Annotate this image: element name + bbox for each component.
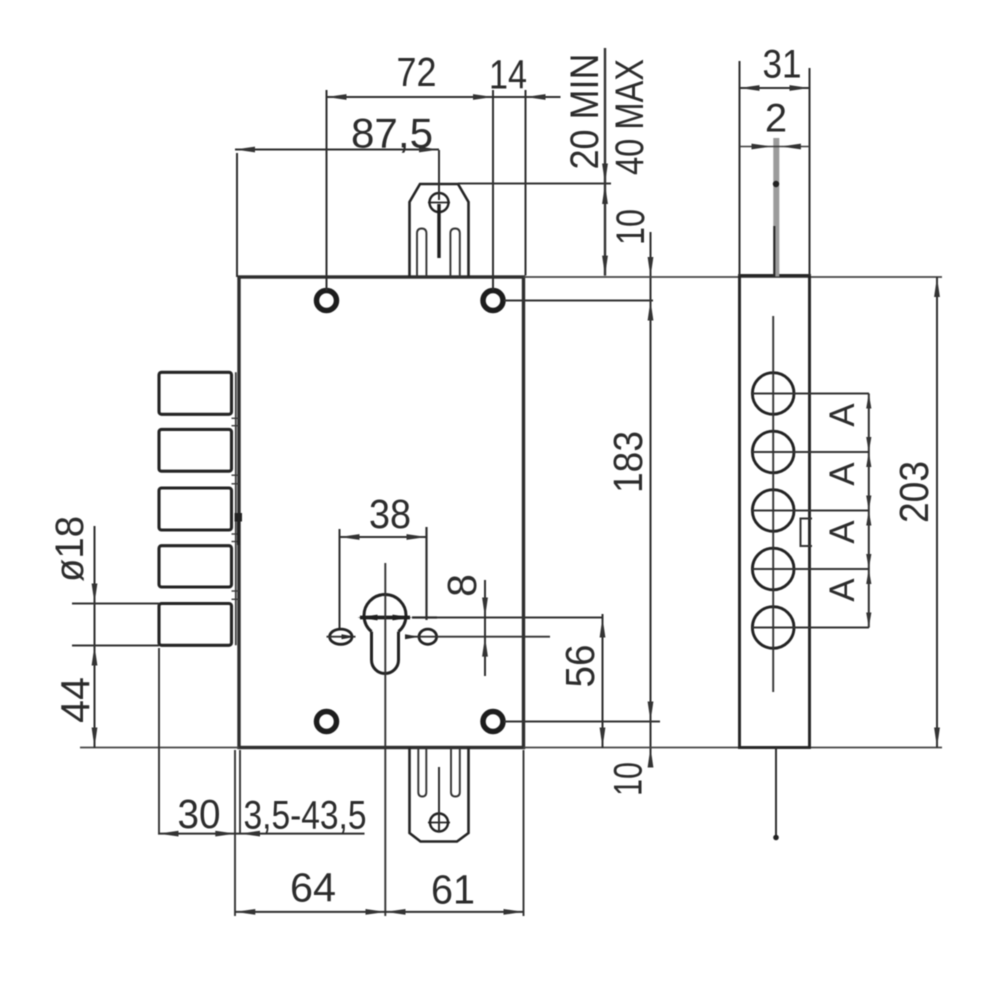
- dimension 30 / 3,5-43,5: [158, 833, 365, 835]
- dimension 87,5 line: [235, 150, 439, 278]
- mounting hole top-left: [317, 291, 337, 311]
- bottom tab slot left: [418, 748, 426, 797]
- side row lines: [752, 394, 869, 628]
- bolt5 extension lines: [72, 603, 159, 605]
- hole row extension bottom: [504, 721, 660, 723]
- bottom tab screw: [430, 814, 448, 832]
- deadbolt 2: [159, 429, 232, 471]
- top fixing tab: [410, 184, 469, 277]
- svg-text:183: 183: [605, 431, 651, 493]
- side screw dot: [773, 181, 779, 187]
- svg-text:8: 8: [439, 574, 485, 597]
- svg-text:14: 14: [489, 52, 527, 98]
- svg-text:ø18: ø18: [48, 516, 92, 582]
- mounting hole bottom-right: [483, 712, 503, 732]
- svg-text:30: 30: [178, 791, 221, 837]
- dimension 56: [602, 614, 604, 748]
- body bottom extension: [80, 747, 239, 749]
- bottom tab slot right: [451, 748, 460, 797]
- top tab slot left: [417, 229, 426, 278]
- svg-text:40 MAX: 40 MAX: [608, 59, 652, 175]
- top tab screw: [430, 193, 449, 212]
- svg-text:64: 64: [290, 865, 336, 911]
- svg-text:2: 2: [765, 97, 787, 141]
- svg-text:10: 10: [607, 762, 651, 796]
- side tail: [775, 748, 777, 837]
- svg-text:31: 31: [763, 43, 802, 87]
- dimension A line: [868, 394, 870, 628]
- svg-text:A: A: [823, 578, 862, 602]
- svg-text:87,5: 87,5: [351, 110, 433, 157]
- dimension 203: [936, 277, 938, 748]
- dimension ø18 / 44: [94, 526, 96, 748]
- mounting hole top-right: [483, 291, 503, 311]
- svg-text:A: A: [823, 520, 862, 544]
- latch block on body edge: [235, 513, 243, 522]
- dimension 38: [340, 527, 427, 628]
- svg-text:38: 38: [369, 491, 411, 537]
- dimension 10top/183/10bottom line: [650, 232, 652, 767]
- deadbolt 3: [159, 488, 232, 530]
- hole row extension top: [504, 300, 653, 302]
- svg-text:20 MIN: 20 MIN: [563, 54, 607, 170]
- side bolt circle 3: [752, 490, 794, 532]
- deadbolt 1: [159, 372, 232, 414]
- top tab centerline: [438, 150, 440, 200]
- side slot line: [773, 226, 775, 277]
- svg-text:72: 72: [397, 49, 437, 95]
- lock body outline: [239, 277, 524, 748]
- dimension 31: [740, 61, 810, 276]
- side bolt circle 1: [752, 373, 794, 415]
- dimension 8: [484, 580, 486, 676]
- svg-text:3,5-43,5: 3,5-43,5: [244, 794, 367, 838]
- deadbolt 4: [159, 546, 232, 587]
- svg-text:A: A: [823, 462, 862, 486]
- side bolt circle 5: [752, 607, 794, 649]
- mounting hole bottom-left: [317, 712, 337, 732]
- tab top extension line: [458, 183, 611, 185]
- oval hole left: [330, 629, 352, 644]
- svg-text:203: 203: [891, 461, 937, 523]
- side faceplate gray strip: [773, 138, 779, 277]
- dimension 64 / 61: [235, 911, 523, 913]
- oval hole right: [419, 629, 437, 644]
- deadbolt 5: [159, 604, 232, 646]
- dimension 20MIN/40MAX line: [604, 48, 606, 276]
- euro cylinder keyhole: [364, 595, 406, 632]
- dimension 72/14 line: [327, 90, 561, 291]
- side bracket: [801, 519, 813, 547]
- keyhole centerline horizontal: [412, 616, 437, 618]
- svg-text:44: 44: [53, 677, 99, 723]
- side centerline vertical: [772, 316, 774, 692]
- keyhole centerline vertical: [384, 563, 386, 916]
- side view plate: [740, 276, 810, 748]
- svg-text:10: 10: [609, 209, 653, 245]
- top tab slot right: [450, 229, 459, 278]
- dimension 2: [740, 146, 810, 148]
- extension lines bottom: [159, 648, 524, 916]
- svg-text:56: 56: [557, 645, 603, 688]
- bottom fixing tab: [410, 748, 469, 842]
- svg-text:A: A: [823, 403, 862, 427]
- body top extension: [524, 276, 943, 278]
- keyhole arrow bar: [360, 616, 410, 620]
- svg-text:61: 61: [431, 867, 475, 913]
- side bolt circle 4: [752, 548, 794, 590]
- bolt guide strip: [235, 372, 237, 645]
- bottom tab centerline: [438, 767, 440, 832]
- side bolt circle 2: [752, 431, 794, 473]
